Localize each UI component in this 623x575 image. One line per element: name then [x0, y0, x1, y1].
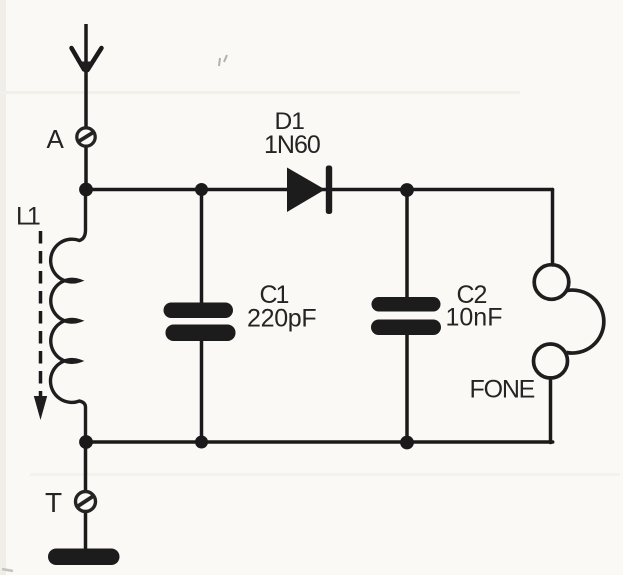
diode D1 [287, 166, 332, 215]
svg-text:T: T [45, 487, 62, 518]
capacitor C1 [164, 303, 236, 342]
node junction bottom C1 [195, 436, 208, 449]
wire top horizontal [86, 188, 553, 192]
wire C1 branch lower [200, 340, 204, 443]
ground [48, 549, 120, 566]
antenna arrow tip [80, 62, 93, 77]
wire right branch upper [551, 190, 555, 266]
wire bottom junction to T terminal [84, 442, 88, 491]
headphone FONE [534, 265, 604, 378]
svg-text:1N60: 1N60 [264, 131, 320, 159]
node junction top C2 [400, 183, 414, 197]
svg-text:FONE: FONE [470, 376, 535, 404]
wire A terminal to junction [84, 147, 88, 190]
stray scan mark [219, 55, 227, 66]
wire C1 branch upper [200, 190, 204, 305]
terminal A [77, 128, 95, 146]
wire C2 branch lower [405, 334, 409, 443]
wire right branch lower [549, 378, 553, 443]
node junction bottom-left [79, 435, 93, 449]
svg-text:220pF: 220pF [247, 305, 316, 333]
antenna lead wire [84, 24, 88, 127]
svg-text:10nF: 10nF [446, 304, 503, 332]
node junction bottom C2 [400, 436, 414, 450]
wire C2 branch upper [405, 190, 409, 299]
node junction top C1 [195, 183, 208, 196]
capacitor C2 [371, 297, 441, 335]
stray mark bottom-left [2, 569, 13, 571]
L1 adjustment dashed arrow [39, 231, 43, 398]
node junction top-left [79, 183, 93, 197]
svg-text:A: A [47, 124, 65, 154]
terminal T [76, 492, 96, 512]
inductor L1 [50, 190, 85, 443]
wire T terminal to ground [84, 512, 88, 550]
svg-text:L1: L1 [16, 203, 40, 231]
wire bottom horizontal [86, 440, 553, 444]
antenna arrowhead [72, 48, 102, 70]
